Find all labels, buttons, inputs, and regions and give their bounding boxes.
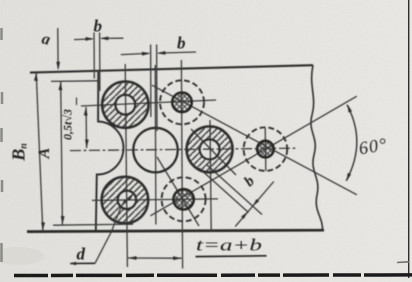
construction line through middle-second hole <box>191 129 236 175</box>
d leader line <box>95 207 121 263</box>
middle plain circle blank <box>133 128 177 172</box>
top-left blank (hatched ring) <box>102 81 148 127</box>
b1 dimension arrows <box>74 38 93 41</box>
diagonal line L1 (lower-left to upper-right through centers) <box>150 96 356 216</box>
page border: bottom dashed line <box>14 273 412 277</box>
b2 dimension arrows <box>121 53 149 54</box>
row3 horizontal centerline <box>92 199 218 201</box>
b2 extension lines <box>150 45 152 118</box>
column 2 vertical centerline <box>181 60 182 269</box>
middle-second blank (hatched ring) <box>187 126 233 172</box>
A dimension line <box>61 82 63 225</box>
60-degree angle arc <box>346 105 357 181</box>
page border: right vertical line <box>408 0 410 278</box>
short 60-deg construction line through bottom-second hole <box>157 157 199 226</box>
bottom-left blank (hatched ring) <box>102 177 149 224</box>
top-second blank (dashed circle, hatched punch) <box>160 80 204 124</box>
stray scan mark bottom-right <box>397 261 409 264</box>
bottom-second blank (dashed circle, hatched punch) <box>162 177 206 221</box>
row2 horizontal centerline (dash-dot) <box>70 148 296 150</box>
d diameter arrows on inner hole <box>121 199 128 206</box>
b-diagonal dimension line <box>235 182 274 227</box>
row1 horizontal centerline <box>81 100 216 106</box>
bridge tangent line P1 <box>199 168 249 213</box>
strip top edge <box>30 65 313 72</box>
middle-right blank (dashed circle, hatched punch) <box>244 127 288 171</box>
t dimension line <box>128 257 182 259</box>
bridge tangent line P2 <box>207 165 262 215</box>
diagonal line L2 (upper-left to lower-right through centers) <box>152 85 357 195</box>
left scalloped edge of strip (previously blanked row) <box>96 72 124 231</box>
vertical centerline through middle-right hole <box>264 128 267 171</box>
d underline with arrow <box>71 262 96 264</box>
column 1 vertical centerline <box>125 64 127 267</box>
A bottom extent line <box>53 224 133 225</box>
dimension a leader <box>57 28 59 69</box>
middle column vertical centerline <box>154 65 157 225</box>
break (wavy) line right side of strip <box>311 65 323 230</box>
page border: left edge marks <box>0 28 3 262</box>
b1 extension lines <box>93 33 95 79</box>
vertical centerline through middle-second hole <box>210 120 211 231</box>
Bp dimension line <box>36 72 43 230</box>
A top extent line <box>51 80 99 83</box>
strip bottom edge <box>27 230 324 231</box>
0,5t sqrt3 dimension line <box>85 107 88 148</box>
